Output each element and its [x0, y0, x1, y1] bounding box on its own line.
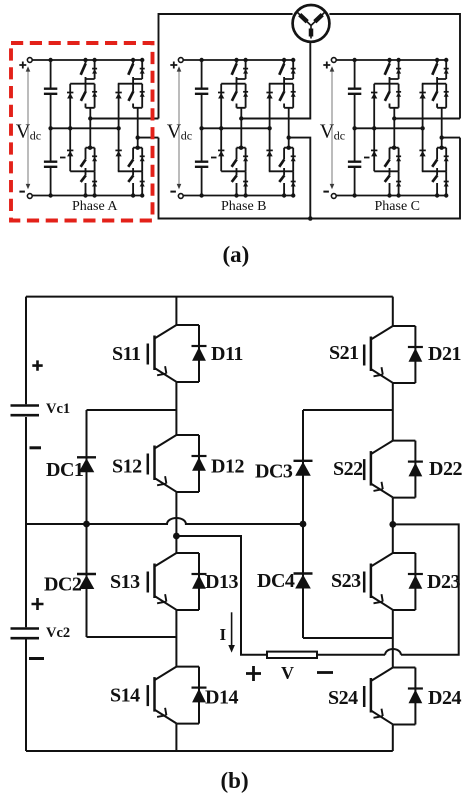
- svg-text:S14: S14: [110, 685, 140, 707]
- svg-text:D11: D11: [211, 343, 243, 365]
- svg-text:I: I: [220, 625, 227, 644]
- svg-text:V: V: [281, 663, 294, 683]
- svg-text:D24: D24: [428, 687, 461, 709]
- svg-text:Phase B: Phase B: [221, 199, 267, 214]
- svg-text:S13: S13: [110, 571, 140, 593]
- svg-text:S12: S12: [112, 456, 142, 478]
- svg-text:D21: D21: [428, 343, 461, 365]
- svg-text:S21: S21: [329, 342, 359, 364]
- svg-text:Vc1: Vc1: [46, 401, 70, 417]
- svg-text:DC1: DC1: [46, 459, 83, 481]
- svg-text:Vc2: Vc2: [46, 625, 70, 641]
- svg-text:D13: D13: [205, 571, 238, 593]
- svg-text:DC2: DC2: [44, 574, 82, 596]
- svg-text:DC4: DC4: [257, 570, 295, 592]
- svg-text:S24: S24: [328, 687, 358, 709]
- svg-text:Phase A: Phase A: [72, 199, 118, 214]
- svg-text:D22: D22: [429, 458, 462, 480]
- svg-text:(a): (a): [223, 242, 250, 267]
- svg-text:S22: S22: [333, 458, 363, 480]
- svg-text:D23: D23: [427, 571, 460, 593]
- svg-text:(b): (b): [221, 768, 249, 793]
- svg-text:S23: S23: [331, 570, 361, 592]
- svg-text:Phase C: Phase C: [375, 199, 421, 214]
- svg-text:S11: S11: [112, 343, 141, 365]
- svg-text:D12: D12: [211, 456, 244, 478]
- svg-text:D14: D14: [205, 687, 238, 709]
- svg-text:DC3: DC3: [255, 461, 293, 483]
